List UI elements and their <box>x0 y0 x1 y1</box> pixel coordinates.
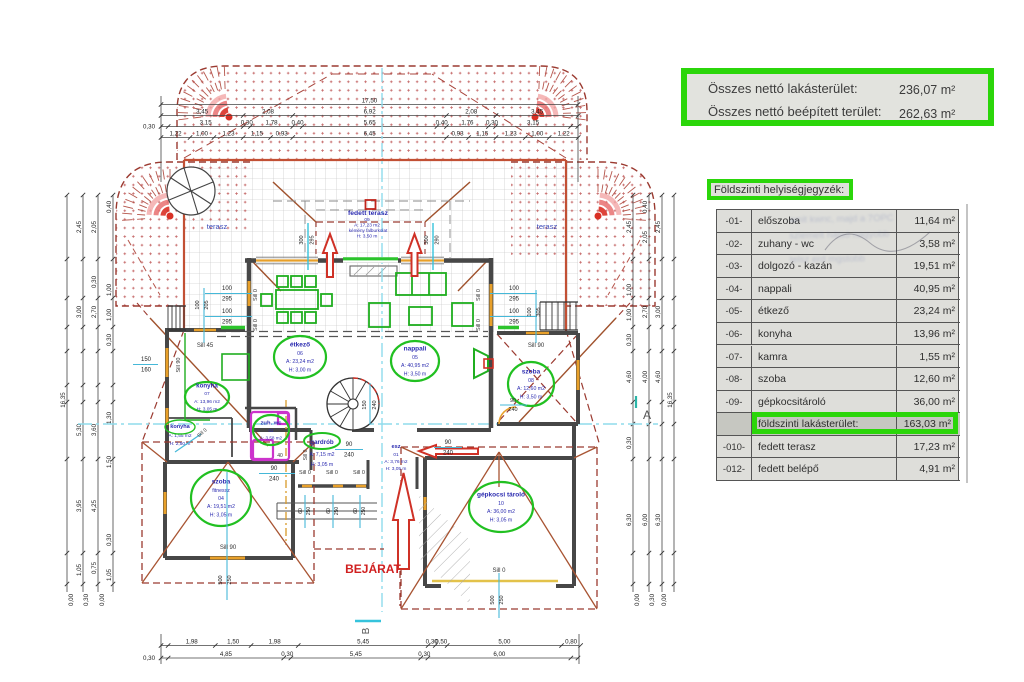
left annex windows <box>167 330 216 425</box>
svg-text:zuh. wc: zuh. wc <box>261 420 283 426</box>
arrow horizontal <box>419 445 478 458</box>
svg-text:4,60: 4,60 <box>655 370 662 383</box>
svg-text:1,98: 1,98 <box>269 639 282 646</box>
svg-text:BEJÁRAT: BEJÁRAT <box>345 561 401 576</box>
svg-text:0,40: 0,40 <box>106 200 113 213</box>
svg-text:0,30: 0,30 <box>626 333 633 346</box>
svg-text:01: 01 <box>393 452 399 458</box>
garage walls <box>425 424 574 586</box>
svg-text:A: 23,24 m2: A: 23,24 m2 <box>286 359 314 365</box>
room szoba fitnessz <box>191 470 251 526</box>
terrace grid <box>184 160 578 332</box>
svg-text:H: 3,05 m: H: 3,05 m <box>210 512 233 518</box>
svg-text:290: 290 <box>435 235 441 244</box>
shower magenta <box>251 412 289 460</box>
svg-text:250: 250 <box>227 575 233 584</box>
room zuh wc <box>253 415 289 445</box>
svg-text:6,45: 6,45 <box>364 131 377 138</box>
svg-text:150: 150 <box>362 400 368 409</box>
paper edge <box>966 204 968 483</box>
svg-text:1,00: 1,00 <box>106 308 113 321</box>
entrance steps <box>277 503 377 519</box>
fedett terasz canopy <box>273 182 470 258</box>
svg-text:A: 36,00 m2: A: 36,00 m2 <box>487 509 515 515</box>
svg-text:100: 100 <box>195 300 201 309</box>
svg-text:Sill 90: Sill 90 <box>220 545 237 551</box>
terrace bench left <box>221 326 245 329</box>
red fan left wing <box>149 195 174 219</box>
svg-text:H: 3,05 m: H: 3,05 m <box>490 517 513 523</box>
corner hatch marks right wing <box>598 169 646 220</box>
svg-text:0,40: 0,40 <box>292 120 305 127</box>
svg-text:H: 3,05 m: H: 3,05 m <box>197 407 218 413</box>
svg-text:240: 240 <box>443 451 454 457</box>
svg-text:0,00: 0,00 <box>661 593 668 606</box>
svg-text:Sill 0: Sill 0 <box>253 319 259 331</box>
svg-text:Sill 0: Sill 0 <box>326 470 338 476</box>
summary box <box>681 68 994 126</box>
svg-text:Sill 0: Sill 0 <box>299 470 311 476</box>
arrow terrace right <box>408 234 422 276</box>
svg-text:6,00: 6,00 <box>493 651 506 658</box>
svg-text:Sill 0: Sill 0 <box>476 319 482 331</box>
svg-text:2,08: 2,08 <box>465 109 478 116</box>
circle symbol <box>167 167 215 215</box>
arrow entrance <box>393 473 414 569</box>
svg-text:2,70: 2,70 <box>91 305 98 318</box>
svg-text:A: 3,76 m2: A: 3,76 m2 <box>384 459 408 465</box>
svg-text:500: 500 <box>490 595 496 604</box>
svg-text:500: 500 <box>218 575 224 584</box>
svg-text:17,50: 17,50 <box>362 98 378 105</box>
svg-text:04: 04 <box>218 496 224 502</box>
svg-text:5,45: 5,45 <box>357 639 370 646</box>
wing valley dashes <box>128 240 640 295</box>
svg-text:0,30: 0,30 <box>626 436 633 449</box>
chimney <box>366 200 376 209</box>
entrance windows <box>302 485 366 488</box>
BEJÁRAT <box>345 561 401 576</box>
svg-text:1,15: 1,15 <box>476 131 489 138</box>
svg-text:fedett terasz: fedett terasz <box>348 210 389 217</box>
svg-text:305: 305 <box>536 307 542 316</box>
svg-text:100: 100 <box>527 307 533 316</box>
svg-text:1,23: 1,23 <box>223 131 236 138</box>
svg-text:Sill 45: Sill 45 <box>197 343 214 349</box>
svg-text:90: 90 <box>271 466 278 472</box>
svg-text:1,50: 1,50 <box>227 639 240 646</box>
svg-text:B: B <box>361 627 372 634</box>
svg-text:5,00: 5,00 <box>498 639 511 646</box>
room gépkocsi tároló <box>469 482 533 532</box>
svg-text:60: 60 <box>353 508 359 514</box>
spiral stair <box>327 378 379 430</box>
svg-text:Sill 0: Sill 0 <box>476 289 482 301</box>
svg-text:90: 90 <box>510 398 516 404</box>
svg-text:16,35: 16,35 <box>667 392 674 408</box>
porch roof dashes <box>314 549 400 606</box>
ghost artifacts <box>789 211 971 324</box>
svg-text:H: 3,50 m: H: 3,50 m <box>520 394 543 400</box>
svg-text:250: 250 <box>306 507 312 516</box>
right wing hip roof <box>401 447 597 609</box>
dimension chain right <box>626 193 676 606</box>
kamra leader <box>175 434 201 452</box>
svg-text:1,05: 1,05 <box>76 563 83 576</box>
svg-text:0,30: 0,30 <box>649 593 656 606</box>
dashed upper-storey line <box>217 332 488 337</box>
room konyha <box>185 382 229 413</box>
svg-text:295: 295 <box>310 235 316 244</box>
svg-text:H: 3,05 m: H: 3,05 m <box>311 462 334 468</box>
svg-text:4,60: 4,60 <box>626 370 633 383</box>
svg-text:Sill 0: Sill 0 <box>492 568 506 574</box>
svg-text:07: 07 <box>204 391 210 397</box>
svg-text:240: 240 <box>372 400 378 409</box>
svg-text:1,00: 1,00 <box>531 131 544 138</box>
svg-text:terasz: terasz <box>537 222 558 231</box>
svg-text:100: 100 <box>509 309 520 315</box>
svg-text:300: 300 <box>299 235 305 244</box>
svg-text:H: 3,50 m: H: 3,50 m <box>357 234 378 240</box>
arrow terrace left <box>323 234 337 277</box>
terasz labels <box>207 222 558 231</box>
gardrób details <box>309 452 334 468</box>
svg-text:gépkocsi tároló: gépkocsi tároló <box>477 492 525 499</box>
svg-text:0,93: 0,93 <box>452 131 465 138</box>
central block walls <box>245 258 493 430</box>
svg-text:gardrób: gardrób <box>310 439 334 446</box>
svg-text:3,60: 3,60 <box>91 423 98 436</box>
svg-text:A: 40,95 m2: A: 40,95 m2 <box>401 363 429 369</box>
svg-text:1,05: 1,05 <box>106 568 113 581</box>
svg-text:6,30: 6,30 <box>655 513 662 526</box>
room nappali <box>391 341 439 381</box>
svg-text:40: 40 <box>277 453 283 459</box>
svg-text:A: A <box>643 408 651 422</box>
svg-text:Sill 90: Sill 90 <box>176 358 182 373</box>
corner hatch marks left wing <box>122 169 170 220</box>
axis A horizontal <box>78 396 658 424</box>
svg-text:3,00: 3,00 <box>655 305 662 318</box>
svg-text:295: 295 <box>509 320 520 326</box>
right annex windows <box>526 333 578 390</box>
svg-text:100: 100 <box>509 286 520 292</box>
svg-text:6,30: 6,30 <box>626 513 633 526</box>
svg-text:konyha: konyha <box>170 424 190 430</box>
svg-text:2,45: 2,45 <box>626 220 633 233</box>
svg-text:H: 3,00 m: H: 3,00 m <box>289 367 312 373</box>
svg-text:2,45: 2,45 <box>76 220 83 233</box>
svg-text:0,30: 0,30 <box>91 275 98 288</box>
svg-text:295: 295 <box>222 297 233 303</box>
svg-text:02: 02 <box>268 428 274 433</box>
svg-text:5,30: 5,30 <box>76 423 83 436</box>
svg-text:0,75: 0,75 <box>91 561 98 574</box>
svg-text:konyha: konyha <box>196 382 218 389</box>
svg-text:100: 100 <box>222 286 233 292</box>
dimension chain bottom <box>143 634 583 664</box>
svg-text:100: 100 <box>222 309 233 315</box>
svg-text:kémény falburkolat: kémény falburkolat <box>349 228 388 233</box>
svg-text:2,08: 2,08 <box>262 109 275 116</box>
svg-text:0,80: 0,80 <box>565 639 578 646</box>
svg-text:0,40: 0,40 <box>642 200 649 213</box>
svg-text:1,00: 1,00 <box>106 283 113 296</box>
svg-text:1,78: 1,78 <box>266 120 279 127</box>
svg-text:60: 60 <box>298 508 304 514</box>
svg-text:5,65: 5,65 <box>364 120 377 127</box>
svg-text:0,93: 0,93 <box>276 131 289 138</box>
svg-text:5,45: 5,45 <box>350 651 363 658</box>
svg-text:Sill 0: Sill 0 <box>353 470 365 476</box>
svg-text:1,76: 1,76 <box>461 120 474 127</box>
room előszoba <box>384 444 408 472</box>
svg-text:szoba: szoba <box>522 369 541 376</box>
svg-text:3,95: 3,95 <box>76 499 83 512</box>
svg-text:1,50: 1,50 <box>106 455 113 468</box>
svg-text:0,30: 0,30 <box>83 593 90 606</box>
red fan right wing <box>595 195 620 219</box>
svg-text:160: 160 <box>141 368 152 374</box>
svg-text:H: 3,05 m: H: 3,05 m <box>386 466 407 472</box>
svg-text:1,22: 1,22 <box>170 131 183 138</box>
svg-text:A: 19,51 m2: A: 19,51 m2 <box>207 504 235 510</box>
svg-text:0,00: 0,00 <box>99 593 106 606</box>
window sills top <box>249 257 491 326</box>
svg-text:1,15: 1,15 <box>251 131 264 138</box>
svg-text:H: 3,50 m: H: 3,50 m <box>404 371 427 377</box>
svg-text:09: 09 <box>364 217 370 223</box>
svg-text:05: 05 <box>412 355 418 361</box>
svg-text:90: 90 <box>445 440 452 446</box>
red fan top-right <box>532 96 557 120</box>
svg-text:240: 240 <box>508 407 517 413</box>
svg-text:0,30: 0,30 <box>143 655 156 662</box>
svg-text:2,05: 2,05 <box>91 220 98 233</box>
corner hatch marks top-left <box>178 66 225 120</box>
svg-text:6,92: 6,92 <box>364 109 377 116</box>
entrance walls <box>298 430 417 489</box>
sill labels <box>176 289 545 574</box>
svg-text:10: 10 <box>498 501 504 507</box>
svg-text:240: 240 <box>344 453 355 459</box>
left wing walls <box>165 462 299 558</box>
svg-text:0,30: 0,30 <box>106 333 113 346</box>
svg-text:150: 150 <box>141 357 152 363</box>
svg-text:2,05: 2,05 <box>642 230 649 243</box>
highlight green box <box>752 412 958 434</box>
roof hatch right wing <box>511 162 655 306</box>
room szoba <box>508 362 554 406</box>
roof ridge lines <box>184 74 566 158</box>
svg-text:250: 250 <box>499 595 505 604</box>
room kamra <box>165 420 195 447</box>
svg-text:90: 90 <box>346 442 353 448</box>
svg-text:60: 60 <box>326 508 332 514</box>
room gardrób <box>304 433 340 449</box>
svg-text:0,30: 0,30 <box>143 124 156 131</box>
svg-text:0,30: 0,30 <box>106 533 113 546</box>
table header label <box>707 179 853 200</box>
cyan dims <box>133 223 542 618</box>
szoba door arc <box>499 407 516 424</box>
svg-text:3,45: 3,45 <box>196 109 209 116</box>
svg-text:1,22: 1,22 <box>558 131 571 138</box>
svg-text:205: 205 <box>204 300 210 309</box>
wc room walls <box>245 408 296 459</box>
section line orange <box>285 400 287 545</box>
roof hatch top band <box>177 66 587 160</box>
svg-text:295: 295 <box>222 320 233 326</box>
svg-text:Sill 0: Sill 0 <box>253 289 259 301</box>
svg-text:A: 13,96 m2: A: 13,96 m2 <box>194 399 220 405</box>
terrace bench right <box>498 326 519 329</box>
svg-text:Sill 90: Sill 90 <box>528 343 545 349</box>
svg-text:250: 250 <box>334 507 340 516</box>
left annex walls <box>165 330 245 463</box>
left wing hip roof <box>142 442 314 583</box>
svg-text:A: 12,60 m2: A: 12,60 m2 <box>517 386 545 392</box>
svg-text:16,35: 16,35 <box>60 392 67 408</box>
svg-text:1,00: 1,00 <box>626 283 633 296</box>
svg-text:0,00: 0,00 <box>634 593 641 606</box>
kitchen counter <box>185 333 249 420</box>
svg-text:nappali: nappali <box>404 346 427 353</box>
svg-text:4,85: 4,85 <box>220 651 233 658</box>
svg-text:295: 295 <box>509 297 520 303</box>
svg-text:4,00: 4,00 <box>642 370 649 383</box>
dimension chain left <box>60 193 115 606</box>
dining table <box>261 276 332 323</box>
svg-text:240: 240 <box>269 477 280 483</box>
svg-text:06: 06 <box>297 351 303 357</box>
svg-text:1,30: 1,30 <box>106 411 113 424</box>
svg-text:Sill 0: Sill 0 <box>303 449 309 460</box>
terrace boundary <box>184 160 566 332</box>
svg-text:2,45: 2,45 <box>655 220 662 233</box>
svg-text:1,23: 1,23 <box>505 131 518 138</box>
svg-text:1,00: 1,00 <box>196 131 209 138</box>
skylight box <box>350 266 397 276</box>
garage door <box>425 497 558 581</box>
room table <box>716 209 959 481</box>
svg-text:250: 250 <box>361 507 367 516</box>
axis B vertical <box>355 68 382 634</box>
sofa set <box>369 273 473 327</box>
svg-text:0,00: 0,00 <box>68 593 75 606</box>
red fan top-left <box>208 96 233 120</box>
svg-text:A: 7,15 m2: A: 7,15 m2 <box>309 452 334 458</box>
hip diagonals <box>137 261 630 446</box>
stair right terrace <box>540 302 578 330</box>
svg-text:6,00: 6,00 <box>642 513 649 526</box>
svg-text:300: 300 <box>424 235 430 244</box>
svg-text:étkező: étkező <box>290 342 310 349</box>
roof hatch left wing <box>116 162 250 306</box>
svg-text:terasz: terasz <box>207 222 228 231</box>
svg-text:3,45: 3,45 <box>531 109 544 116</box>
svg-text:3,15: 3,15 <box>527 120 540 127</box>
svg-text:A: 3,58 m2: A: 3,58 m2 <box>260 436 283 441</box>
fireplace <box>474 349 493 378</box>
svg-text:3,00: 3,00 <box>76 305 83 318</box>
stair left terrace <box>168 306 186 330</box>
svg-text:0,40: 0,40 <box>436 120 449 127</box>
ramp hatch <box>419 495 470 604</box>
svg-text:esz: esz <box>391 444 400 450</box>
svg-text:szoba: szoba <box>212 479 231 486</box>
svg-text:08: 08 <box>528 378 534 384</box>
dimension chain top <box>143 96 580 182</box>
room étkező <box>274 336 326 378</box>
svg-text:0,50: 0,50 <box>435 639 448 646</box>
right annex walls <box>497 333 578 424</box>
svg-text:1,00: 1,00 <box>626 308 633 321</box>
svg-text:3,15: 3,15 <box>200 120 213 127</box>
svg-text:4,25: 4,25 <box>91 499 98 512</box>
svg-text:1,98: 1,98 <box>186 639 199 646</box>
corner hatch marks top-right <box>539 66 586 120</box>
fedett terasz label <box>348 210 389 240</box>
svg-text:2,70: 2,70 <box>642 305 649 318</box>
left wing windows <box>165 492 245 558</box>
